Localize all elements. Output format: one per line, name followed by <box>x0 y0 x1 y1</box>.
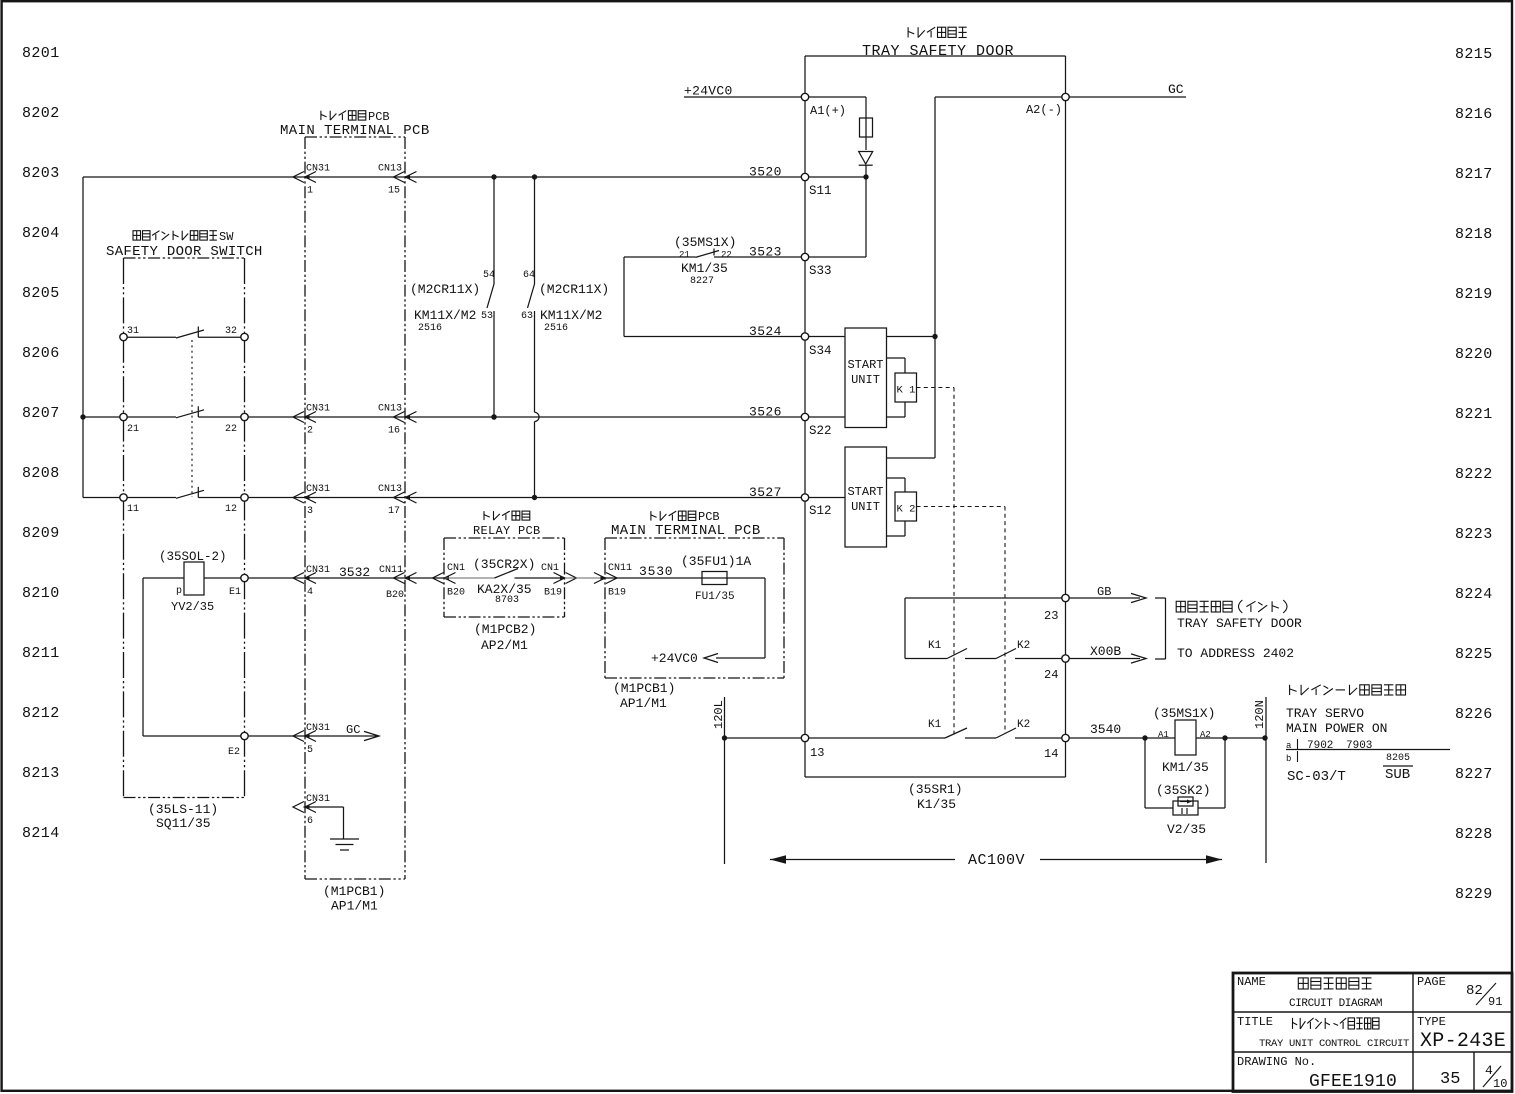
connector CN31 pin 2 <box>293 412 304 423</box>
terminal 32 <box>241 333 248 340</box>
svg-text:8202: 8202 <box>22 105 60 122</box>
svg-text:53: 53 <box>481 311 493 322</box>
solenoid YV2/35 body <box>184 562 204 595</box>
wire S11 stub <box>809 176 867 178</box>
svg-text:14: 14 <box>1044 747 1058 761</box>
svg-text:B20: B20 <box>386 590 404 601</box>
svg-text:CN31: CN31 <box>306 723 330 734</box>
GB output arrow <box>1069 597 1140 599</box>
svg-text:8703: 8703 <box>495 595 519 606</box>
svg-text:SQ11/35: SQ11/35 <box>156 816 211 831</box>
svg-text:11: 11 <box>127 504 139 515</box>
svg-text:E1: E1 <box>229 587 241 598</box>
svg-text:KM11X/M2: KM11X/M2 <box>414 308 476 323</box>
svg-text:MAIN TERMINAL PCB: MAIN TERMINAL PCB <box>611 523 761 539</box>
svg-text:8217: 8217 <box>1455 166 1493 183</box>
svg-text:8207: 8207 <box>22 405 60 422</box>
svg-text:CN13: CN13 <box>378 484 402 495</box>
svg-text:8225: 8225 <box>1455 646 1493 663</box>
terminal 22 <box>241 413 248 420</box>
AC100V span arrows <box>770 859 955 861</box>
svg-text:8209: 8209 <box>22 525 60 542</box>
terminal A2(-) <box>1062 93 1069 100</box>
wire 3520 to relay contacts <box>491 174 496 179</box>
SUB overline label <box>1383 765 1413 767</box>
svg-text:RELAY PCB: RELAY PCB <box>473 524 541 538</box>
svg-text:V2/35: V2/35 <box>1167 822 1206 837</box>
svg-text:21: 21 <box>127 424 139 435</box>
svg-text:8228: 8228 <box>1455 826 1493 843</box>
svg-text:8203: 8203 <box>22 165 60 182</box>
svg-text:32: 32 <box>225 326 237 337</box>
svg-text:82: 82 <box>1466 983 1483 999</box>
svg-text:CN31: CN31 <box>306 794 330 805</box>
svg-text:CN1: CN1 <box>541 563 559 574</box>
svg-text:64: 64 <box>523 270 535 281</box>
svg-text:GC: GC <box>1168 82 1184 97</box>
svg-text:24: 24 <box>1044 668 1058 682</box>
destination label JP <box>1176 600 1287 613</box>
svg-text:(35FU1)1A: (35FU1)1A <box>681 554 751 569</box>
svg-text:17: 17 <box>388 506 400 517</box>
svg-text:35: 35 <box>1440 1070 1460 1089</box>
connector CN13 pin 17 <box>394 492 405 503</box>
svg-text:AP1/M1: AP1/M1 <box>620 696 667 711</box>
svg-text:A1(+): A1(+) <box>810 104 846 118</box>
tray safety door box outline <box>805 55 1066 57</box>
svg-text:(M2CR11X): (M2CR11X) <box>539 282 609 297</box>
svg-text:(M1PCB2): (M1PCB2) <box>474 622 536 637</box>
wire start unit1 to bus <box>887 336 936 338</box>
start unit 2 box <box>845 447 887 547</box>
svg-text:X00B: X00B <box>1090 644 1121 659</box>
contact KA2X/35 <box>445 577 495 579</box>
wire solenoid right lead to E1 <box>204 577 241 579</box>
svg-text:K1/35: K1/35 <box>917 797 956 812</box>
net 120L vertical <box>724 697 726 864</box>
svg-text:CN11: CN11 <box>379 565 403 576</box>
svg-text:CN13: CN13 <box>378 404 402 415</box>
svg-text:GB: GB <box>1097 585 1111 599</box>
surge killer V2/35 branch <box>1144 738 1146 808</box>
contact K1 power row <box>809 737 946 739</box>
connector CN1 B20 <box>433 573 444 584</box>
wire row 8208 switch to door box <box>248 497 802 499</box>
svg-text:TRAY SAFETY DOOR: TRAY SAFETY DOOR <box>862 43 1014 60</box>
junction at 120N <box>1262 735 1267 740</box>
svg-text:8218: 8218 <box>1455 226 1493 243</box>
wire left bus vertical x83 <box>82 177 84 498</box>
svg-text:8220: 8220 <box>1455 346 1493 363</box>
start unit 1 box <box>845 328 887 428</box>
connector CN13 pin 16 <box>394 412 405 423</box>
connector CN1 B19 out <box>566 573 577 584</box>
svg-text:SUB: SUB <box>1385 767 1410 783</box>
contact KM11X 53-54 <box>493 177 495 284</box>
wire GB row <box>905 597 1062 599</box>
title block dividers <box>1233 1011 1512 1013</box>
svg-text:CIRCUIT DIAGRAM: CIRCUIT DIAGRAM <box>1289 998 1382 1010</box>
svg-text:(35SK2): (35SK2) <box>1156 783 1211 798</box>
wire bus down to unit2 <box>934 337 936 459</box>
terminal S11 <box>801 173 808 180</box>
svg-text:GC: GC <box>346 723 360 737</box>
svg-text:E2: E2 <box>228 747 240 758</box>
+24VC0 feed wire <box>684 96 801 98</box>
svg-text:7902: 7902 <box>1307 740 1333 752</box>
terminal 12 <box>241 494 248 501</box>
contact KM1/35 21-22 <box>624 256 696 258</box>
svg-text:TRAY SAFETY DOOR: TRAY SAFETY DOOR <box>1177 616 1302 631</box>
wire row 8207 left of switch <box>83 416 120 418</box>
junction A1 KM coil <box>1142 735 1147 740</box>
junction diode to S11 <box>863 174 868 179</box>
main terminal pcb2 label JP <box>651 511 696 520</box>
svg-text:2: 2 <box>307 426 313 437</box>
junction A2 side <box>1222 735 1227 740</box>
svg-text:START: START <box>847 358 883 372</box>
svg-text:8201: 8201 <box>22 45 60 62</box>
wire S34 lead <box>809 336 846 338</box>
svg-text:TRAY UNIT CONTROL CIRCUIT: TRAY UNIT CONTROL CIRCUIT <box>1259 1038 1409 1050</box>
svg-text:8224: 8224 <box>1455 586 1493 603</box>
svg-text:3524: 3524 <box>749 324 782 339</box>
svg-text:b: b <box>1286 754 1291 764</box>
svg-text:p: p <box>176 586 182 597</box>
svg-text:K1: K1 <box>928 719 942 731</box>
terminal S22 <box>801 413 808 420</box>
svg-text:3540: 3540 <box>1090 722 1121 737</box>
svg-text:CN31: CN31 <box>306 404 330 415</box>
wire +24VC0 return <box>764 578 766 658</box>
svg-text:TITLE: TITLE <box>1237 1015 1273 1029</box>
contact KM11X 63-64 <box>534 177 536 284</box>
svg-text:TO ADDRESS 2402: TO ADDRESS 2402 <box>1177 646 1294 661</box>
contact K2 output row <box>996 649 1016 659</box>
svg-text:91: 91 <box>1488 995 1502 1009</box>
svg-text:K2: K2 <box>1017 719 1030 731</box>
svg-text:MAIN POWER ON: MAIN POWER ON <box>1286 721 1387 736</box>
terminal 31 <box>120 333 127 340</box>
wire relay to main pcb <box>565 577 606 579</box>
svg-text:13: 13 <box>810 746 824 760</box>
svg-text:22: 22 <box>721 250 732 260</box>
terminal 14 <box>1062 734 1069 741</box>
terminal 23 <box>1062 594 1069 601</box>
net GC top right <box>1069 96 1186 98</box>
mech link K2 dotted <box>917 506 1006 508</box>
svg-text:AP1/M1: AP1/M1 <box>331 899 378 914</box>
svg-text:S12: S12 <box>809 504 832 518</box>
svg-text:8214: 8214 <box>22 825 60 842</box>
terminal 11 <box>120 494 127 501</box>
svg-text:8211: 8211 <box>22 645 60 662</box>
destination bracket <box>1155 597 1166 599</box>
wire 3523-3524 U link <box>623 257 625 337</box>
svg-text:8222: 8222 <box>1455 466 1493 483</box>
safety door switch enclosure box <box>124 257 245 259</box>
svg-text:S11: S11 <box>809 184 832 198</box>
svg-text:YV2/35: YV2/35 <box>171 600 214 614</box>
svg-text:4: 4 <box>1485 1063 1493 1078</box>
svg-text:23: 23 <box>1044 609 1058 623</box>
svg-text:START: START <box>847 485 883 499</box>
contact K1 output row <box>905 658 947 660</box>
svg-text:CN11: CN11 <box>608 563 632 574</box>
terminal S12 <box>801 494 808 501</box>
connector CN31 pin 1 <box>293 172 304 183</box>
svg-text:UNIT: UNIT <box>851 373 880 387</box>
svg-text:8208: 8208 <box>22 465 60 482</box>
wire 3520 row 8203 <box>83 176 801 178</box>
svg-text:63: 63 <box>521 311 533 322</box>
svg-text:K1: K1 <box>928 640 942 652</box>
relay pcb box <box>444 537 565 539</box>
diode inside door box <box>859 152 873 165</box>
svg-text:(35CR2X): (35CR2X) <box>473 557 535 572</box>
connector CN11 B19 in <box>606 573 617 584</box>
svg-text:8205: 8205 <box>1386 753 1410 764</box>
left row numbers 8201-8214 <box>22 45 60 842</box>
svg-text:8223: 8223 <box>1455 526 1493 543</box>
wire A1 to fuse branch <box>809 96 867 98</box>
svg-text:FU1/35: FU1/35 <box>695 591 735 603</box>
contact K2 power row <box>996 728 1016 738</box>
svg-text:6: 6 <box>307 816 313 827</box>
svg-text:+24VC0: +24VC0 <box>684 84 733 99</box>
junction left bus row 8207 <box>80 414 85 419</box>
svg-text:S22: S22 <box>809 424 832 438</box>
svg-text:CN13: CN13 <box>378 164 402 175</box>
relay K2 box <box>887 477 906 479</box>
svg-text:(35SR1): (35SR1) <box>908 782 963 797</box>
wire 120L to terminal 13 <box>725 737 802 739</box>
junction internal bus <box>932 334 937 339</box>
wire row 8208 left of switch <box>83 497 120 499</box>
svg-text:K 2: K 2 <box>897 504 916 516</box>
wire S33 stub <box>865 177 867 257</box>
svg-text:120N: 120N <box>1253 700 1267 729</box>
svg-text:(35MS1X): (35MS1X) <box>1153 706 1215 721</box>
wire S22 lead <box>809 416 846 418</box>
connector CN31 pin 5 <box>293 731 304 742</box>
svg-text:CN31: CN31 <box>306 164 330 175</box>
svg-text:S33: S33 <box>809 264 832 278</box>
tray servo label JP <box>1290 685 1406 695</box>
svg-text:+24VC0: +24VC0 <box>651 651 698 666</box>
svg-text:B19: B19 <box>608 588 626 599</box>
svg-text:UNIT: UNIT <box>851 500 880 514</box>
svg-text:GFEE1910: GFEE1910 <box>1309 1072 1397 1092</box>
terminal 21 <box>120 413 127 420</box>
svg-text:KM11X/M2: KM11X/M2 <box>540 308 602 323</box>
svg-text:PCB: PCB <box>698 510 720 524</box>
svg-text:CN31: CN31 <box>306 565 330 576</box>
svg-text:8215: 8215 <box>1455 46 1493 63</box>
wire pin6 to ground <box>305 806 344 808</box>
svg-text:3530: 3530 <box>639 564 673 579</box>
svg-text:16: 16 <box>388 426 400 437</box>
main terminal pcb box M1PCB1 <box>305 136 405 138</box>
relay K1 box <box>887 357 906 359</box>
svg-text:AP2/M1: AP2/M1 <box>481 638 528 653</box>
terminal S33 <box>801 253 808 260</box>
svg-text:K2: K2 <box>1017 640 1030 652</box>
wire S12 lead <box>809 497 846 499</box>
svg-text:KM1/35: KM1/35 <box>1162 760 1209 775</box>
svg-text:S34: S34 <box>809 344 832 358</box>
svg-text:2516: 2516 <box>544 323 568 334</box>
svg-text:8210: 8210 <box>22 585 60 602</box>
svg-text:3520: 3520 <box>749 165 782 180</box>
terminal 13 <box>801 734 808 741</box>
svg-text:(M2CR11X): (M2CR11X) <box>410 282 480 297</box>
svg-text:B19: B19 <box>544 588 562 599</box>
svg-text:31: 31 <box>127 326 139 337</box>
svg-text:8229: 8229 <box>1455 886 1493 903</box>
svg-text:3526: 3526 <box>749 405 782 420</box>
svg-text:PCB: PCB <box>368 110 390 124</box>
wire GC arrow from pin 5 <box>248 735 378 737</box>
wire 3532 main row <box>248 577 445 579</box>
svg-text:XP-243E: XP-243E <box>1420 1030 1506 1053</box>
svg-text:21: 21 <box>679 250 690 260</box>
svg-text:A2(-): A2(-) <box>1026 103 1062 117</box>
mechanical link dotted <box>191 340 193 497</box>
svg-text:8212: 8212 <box>22 705 60 722</box>
svg-text:8219: 8219 <box>1455 286 1493 303</box>
X00B output arrow <box>1069 658 1140 660</box>
svg-text:AC100V: AC100V <box>968 852 1025 869</box>
terminal E2 <box>241 732 248 739</box>
junction 120L <box>722 735 727 740</box>
svg-text:8221: 8221 <box>1455 406 1493 423</box>
svg-text:3527: 3527 <box>749 485 782 500</box>
mech link K1 dotted <box>917 387 955 389</box>
wire 3540 <box>1069 737 1145 739</box>
svg-text:8205: 8205 <box>22 285 60 302</box>
svg-text:(35LS-11): (35LS-11) <box>148 802 218 817</box>
main terminal pcb bottom box <box>605 537 784 539</box>
wire solenoid left lead <box>143 577 184 579</box>
wire row 8207 switch to door box <box>248 416 802 418</box>
svg-text:3523: 3523 <box>749 245 782 260</box>
terminal 24 <box>1062 655 1069 662</box>
svg-text:KM1/35: KM1/35 <box>681 261 728 276</box>
wire KM coil to 120N <box>1196 737 1265 739</box>
contact 21-22 <box>127 416 176 418</box>
svg-text:DRAWING No.: DRAWING No. <box>1237 1055 1316 1069</box>
svg-text:NAME: NAME <box>1237 975 1266 989</box>
svg-text:TYPE: TYPE <box>1417 1015 1446 1029</box>
svg-text:1: 1 <box>307 186 313 197</box>
svg-text:SW: SW <box>219 230 234 244</box>
svg-text:4: 4 <box>307 587 313 598</box>
svg-text:8227: 8227 <box>1455 766 1493 783</box>
title block outer box <box>1233 973 1512 1092</box>
svg-text:SC-03/T: SC-03/T <box>1287 769 1346 785</box>
fuse F inside door box <box>865 97 867 150</box>
svg-text:B20: B20 <box>447 588 465 599</box>
svg-text:CN1: CN1 <box>447 563 465 574</box>
net 120N vertical <box>1265 697 1267 863</box>
svg-text:(35MS1X): (35MS1X) <box>674 235 736 250</box>
tray safety door label JP <box>908 27 967 37</box>
svg-text:A1: A1 <box>1158 730 1169 740</box>
svg-text:8204: 8204 <box>22 225 60 242</box>
contact 11-12 <box>127 497 176 499</box>
svg-text:5: 5 <box>307 745 313 756</box>
svg-text:7903: 7903 <box>1346 740 1372 752</box>
connector CN31 pin 3 <box>293 492 304 503</box>
svg-text:8226: 8226 <box>1455 706 1493 723</box>
terminal E1 <box>241 574 248 581</box>
relay pcb label JP <box>484 511 530 520</box>
surge killer symbol <box>1173 801 1198 815</box>
svg-text:K 1: K 1 <box>897 385 916 397</box>
svg-text:8227: 8227 <box>690 276 714 287</box>
connector CN31 pin 6 <box>293 802 304 813</box>
svg-text:54: 54 <box>483 270 495 281</box>
svg-text:8206: 8206 <box>22 345 60 362</box>
coil KM1/35 <box>1175 720 1196 755</box>
svg-text:(M1PCB1): (M1PCB1) <box>613 681 675 696</box>
svg-text:2516: 2516 <box>418 323 442 334</box>
right row numbers 8215-8229 <box>1455 46 1493 903</box>
terminal S34 <box>801 333 808 340</box>
wire to KM coil <box>1145 737 1175 739</box>
terminal A1(+) <box>801 93 808 100</box>
svg-text:12: 12 <box>225 504 237 515</box>
svg-text:CN31: CN31 <box>306 484 330 495</box>
main terminal pcb label JP <box>321 111 366 120</box>
ground symbol <box>330 838 359 840</box>
svg-text:TRAY SERVO: TRAY SERVO <box>1286 706 1364 721</box>
connector CN31 pin 4 <box>293 573 304 584</box>
svg-text:(M1PCB1): (M1PCB1) <box>323 884 385 899</box>
svg-text:10: 10 <box>1493 1077 1507 1091</box>
svg-text:120L: 120L <box>712 700 726 729</box>
connector CN11 pin B20 <box>394 573 405 584</box>
svg-text:PAGE: PAGE <box>1417 975 1446 989</box>
svg-text:3: 3 <box>307 506 313 517</box>
svg-text:8216: 8216 <box>1455 106 1493 123</box>
svg-text:15: 15 <box>388 186 400 197</box>
connector CN13 pin 15 <box>394 172 405 183</box>
safety door switch label JP <box>133 231 217 240</box>
fuse FU1/35 <box>605 577 765 579</box>
svg-text:8213: 8213 <box>22 765 60 782</box>
wire A2 to internal bus <box>935 96 1062 98</box>
svg-text:22: 22 <box>225 424 237 435</box>
contact 31-32 <box>127 336 176 338</box>
